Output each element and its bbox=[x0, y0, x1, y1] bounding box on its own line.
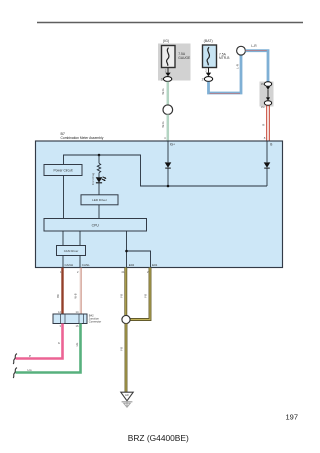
ground ED triangle bbox=[121, 392, 133, 401]
wire CAN driver to CANH pin bbox=[62, 256, 64, 268]
combination meter assembly box B7 bbox=[36, 141, 283, 268]
connector socket ellipse below fuse F2 bbox=[204, 77, 212, 82]
diode D1 bbox=[165, 162, 172, 168]
connector arrow below fuse F1 bbox=[165, 73, 170, 77]
wire olive from J4 to ground bbox=[125, 324, 128, 393]
wire P pink bbox=[16, 324, 63, 359]
fuse F2 7.5A MTR-B bbox=[203, 45, 217, 68]
svg-text:MTR-B: MTR-B bbox=[219, 56, 230, 60]
connector socket ellipse below fuse F1 bbox=[163, 77, 171, 82]
svg-text:E01: E01 bbox=[152, 263, 158, 267]
wire CPU to CAN driver 2 bbox=[79, 231, 81, 246]
ground chassis symbol bbox=[122, 401, 133, 407]
wire D1 cathode down bbox=[167, 168, 169, 186]
wire LED driver to CPU bbox=[98, 205, 100, 219]
svg-text:CAN Driver: CAN Driver bbox=[64, 249, 79, 253]
inline connector J2 top socket bbox=[264, 82, 271, 87]
wire CPU to CAN driver bbox=[62, 231, 64, 246]
svg-text:LG: LG bbox=[28, 368, 33, 372]
wire E02 olive to node J4 bbox=[124, 268, 127, 316]
diode D2 bbox=[264, 162, 271, 168]
svg-text:CANL: CANL bbox=[82, 263, 90, 267]
fuse F1 (IG) gray panel bbox=[158, 44, 191, 81]
wire CPU to E02/E01 pins bbox=[126, 231, 128, 268]
wire inside from IG+ pin bbox=[167, 141, 169, 162]
CAN Driver block bbox=[57, 246, 86, 256]
continuation symbol green wire bbox=[13, 368, 17, 378]
wire CANH brown bbox=[61, 268, 63, 315]
svg-text:2: 2 bbox=[202, 77, 204, 81]
top rule bbox=[37, 22, 303, 24]
resistor R1 bbox=[97, 155, 100, 177]
svg-text:P: P bbox=[29, 354, 31, 358]
CPU block bbox=[44, 219, 147, 232]
wire CANL pale bbox=[79, 268, 81, 315]
connector arrow below fuse F2 bbox=[206, 73, 211, 77]
svg-text:LED Driver: LED Driver bbox=[92, 198, 107, 202]
wire L-R blue from fuse F2 to node J1 bbox=[209, 55, 242, 93]
node junction on rail bbox=[167, 185, 170, 188]
svg-text:W-G: W-G bbox=[161, 121, 165, 128]
svg-text:L-R: L-R bbox=[236, 63, 240, 69]
wire R red from J2 to meter pin B bbox=[266, 105, 268, 140]
svg-text:(IG): (IG) bbox=[163, 39, 169, 43]
wire inside from B pin bbox=[266, 141, 268, 162]
Power Circuit block bbox=[44, 165, 82, 176]
node J4 circle junction bbox=[122, 315, 130, 323]
fuse F1 7.5A GAUGE bbox=[162, 46, 176, 68]
svg-text:197: 197 bbox=[285, 413, 298, 422]
svg-text:IG+: IG+ bbox=[170, 142, 175, 146]
inline connector J2 gray panel bbox=[260, 82, 274, 107]
wire power circuit to CPU bbox=[63, 176, 65, 219]
continuation symbol pink wire bbox=[13, 354, 17, 364]
svg-text:Power Circuit: Power Circuit bbox=[54, 168, 73, 172]
junction connector B42 bbox=[53, 314, 87, 324]
svg-text:P: P bbox=[57, 342, 61, 344]
wire W-G green from fuse F1 to node J3 bbox=[167, 82, 170, 105]
svg-text:CPU: CPU bbox=[92, 223, 100, 227]
node J3 circle connector bbox=[163, 105, 173, 115]
LED indicator Front Fog bbox=[96, 177, 107, 183]
wire D2 cathode down bbox=[266, 168, 268, 186]
svg-text:B: B bbox=[270, 143, 272, 147]
wire fuse F1 output stub bbox=[167, 68, 169, 73]
svg-text:(BAT): (BAT) bbox=[204, 39, 213, 43]
inline connector J2 bottom socket bbox=[264, 101, 271, 106]
svg-text:L-R: L-R bbox=[251, 44, 257, 48]
node junction resistor top bbox=[98, 154, 101, 157]
inline connector J2 pins bbox=[266, 87, 270, 90]
wire LED to LED driver bbox=[98, 183, 100, 195]
svg-text:41: 41 bbox=[121, 270, 125, 274]
svg-text:BRZ (G4400BE): BRZ (G4400BE) bbox=[128, 433, 189, 443]
node J1 circle connector bbox=[237, 46, 246, 55]
LED Driver block bbox=[81, 195, 118, 205]
wire W-G green from J3 to meter pin IG+ bbox=[167, 115, 170, 141]
wire CAN driver to CANL pin bbox=[79, 256, 81, 268]
wire E01 olive to node J4 bbox=[130, 268, 150, 320]
wire LG green bbox=[16, 324, 81, 373]
svg-text:B7: B7 bbox=[61, 132, 65, 136]
wire cathode rail bbox=[64, 155, 268, 186]
svg-text:Combination Meter Assembly: Combination Meter Assembly bbox=[61, 136, 104, 140]
svg-text:E02: E02 bbox=[129, 263, 135, 267]
svg-text:GAUGE: GAUGE bbox=[178, 56, 191, 60]
svg-text:3: 3 bbox=[161, 77, 163, 81]
wire L-R blue from J1 to inline connector J2 bbox=[246, 51, 269, 82]
svg-text:W-G: W-G bbox=[161, 88, 165, 95]
wire fuse F2 output stub bbox=[208, 68, 210, 73]
svg-text:Front Fog: Front Fog bbox=[91, 172, 95, 185]
svg-text:CANH: CANH bbox=[65, 263, 74, 267]
